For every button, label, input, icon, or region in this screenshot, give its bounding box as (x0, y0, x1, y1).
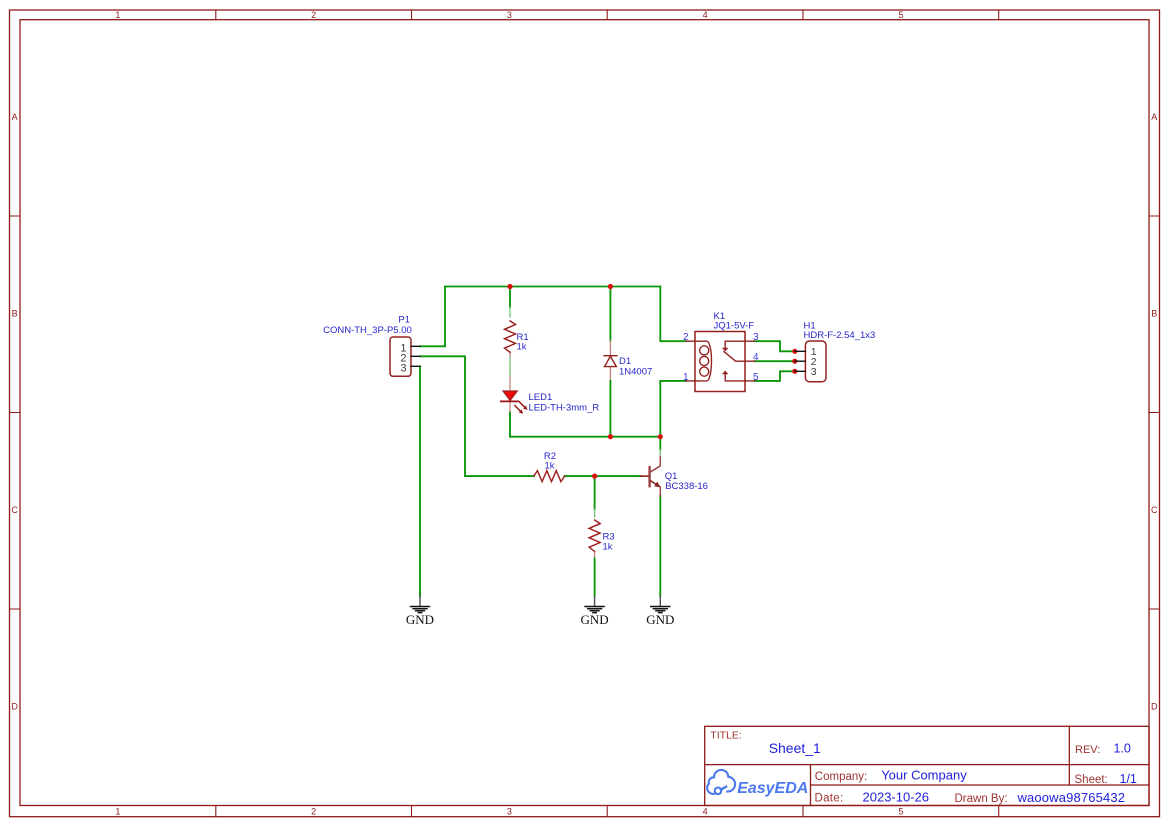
svg-text:A: A (1151, 112, 1157, 122)
junction dot R2 R3 (592, 474, 597, 479)
wire top rail (445, 286, 660, 288)
svg-text:1k: 1k (603, 542, 613, 553)
svg-text:1.0: 1.0 (1114, 742, 1131, 756)
svg-text:3: 3 (400, 363, 406, 375)
svg-text:1: 1 (115, 10, 120, 20)
svg-text:1k: 1k (544, 461, 554, 472)
svg-text:3: 3 (507, 10, 512, 20)
svg-text:Your Company: Your Company (881, 768, 967, 783)
transistor Q1 (641, 457, 661, 496)
svg-text:Sheet:: Sheet: (1075, 774, 1108, 786)
svg-text:5: 5 (753, 372, 759, 383)
svg-text:TITLE:: TITLE: (710, 730, 742, 742)
resistor R1 (505, 321, 516, 352)
svg-text:A: A (12, 112, 18, 122)
svg-text:Drawn By:: Drawn By: (955, 793, 1008, 805)
svg-text:EasyEDA: EasyEDA (737, 780, 808, 797)
frame row letters left (11, 112, 18, 712)
ground GND1 (406, 596, 434, 627)
svg-text:BC338-16: BC338-16 (665, 481, 708, 492)
resistor R2 (534, 471, 565, 482)
wire P1 pin3 to GND (419, 366, 421, 596)
svg-text:C: C (1151, 505, 1158, 515)
svg-text:2023-10-26: 2023-10-26 (863, 790, 930, 805)
svg-text:2: 2 (311, 10, 316, 20)
wire R2 to Q1 base (565, 475, 641, 477)
svg-text:HDR-F-2.54_1x3: HDR-F-2.54_1x3 (804, 330, 876, 341)
svg-text:waoowa98765432: waoowa98765432 (1017, 790, 1126, 805)
svg-text:4: 4 (753, 352, 759, 363)
wire relay pin1 to bottom rail (660, 381, 686, 437)
relay coil pins (686, 341, 695, 381)
junction dot H1 pin1 (792, 349, 797, 354)
junction dot top rail D1 (608, 284, 613, 289)
svg-text:P1: P1 (398, 315, 410, 326)
relay coil (695, 341, 712, 381)
svg-text:D: D (1151, 702, 1158, 712)
wire D1 bottom lead (609, 367, 611, 381)
junction dot top rail R1 (507, 284, 512, 289)
svg-text:Date:: Date: (815, 793, 844, 805)
diode D1 (604, 356, 617, 367)
svg-text:3: 3 (507, 807, 512, 817)
wire LED1 to bottom rail (509, 402, 511, 413)
wire Q1 collector (659, 437, 661, 450)
title block outline (705, 726, 1149, 805)
H1 pin stubs 1 2 3 (795, 351, 806, 371)
wire relay pin3 to H1 pin1 (755, 341, 795, 351)
wire relay pin4 to H1 pin2 (755, 360, 795, 362)
svg-text:3: 3 (811, 366, 817, 378)
frame column numbers bottom (115, 807, 903, 817)
P1 pin numbers 1 2 3 (400, 343, 406, 375)
svg-text:1N4007: 1N4007 (619, 367, 652, 378)
svg-text:4: 4 (703, 10, 708, 20)
wire R2 junction to R3 (594, 476, 596, 509)
svg-text:GND: GND (581, 612, 609, 627)
relay pin numbers (683, 332, 759, 383)
svg-text:2: 2 (311, 807, 316, 817)
relay switch contacts (724, 341, 755, 381)
wire D1 top lead (609, 287, 611, 341)
ground GND3 (646, 596, 674, 627)
wire top rail to relay pin2 (660, 287, 686, 342)
P1 pin stubs 1 2 3 (411, 346, 420, 366)
junction dot H1 pin2 (792, 359, 797, 364)
frame row ticks right (1149, 216, 1160, 609)
svg-text:4: 4 (703, 807, 708, 817)
wire R3 to GND (594, 552, 596, 558)
svg-text:3: 3 (753, 332, 759, 343)
H1 pin numbers 1 2 3 (811, 346, 817, 378)
svg-text:D: D (11, 702, 18, 712)
svg-text:2: 2 (683, 332, 689, 343)
svg-text:GND: GND (646, 612, 674, 627)
svg-text:GND: GND (406, 612, 434, 627)
svg-text:B: B (1151, 309, 1157, 319)
wire bottom rail (510, 436, 660, 438)
svg-text:1: 1 (115, 807, 120, 817)
frame column ticks top (216, 10, 999, 20)
frame row ticks left (10, 216, 21, 609)
svg-text:LED1: LED1 (529, 392, 553, 403)
svg-text:1k: 1k (517, 342, 527, 353)
frame column ticks bottom (216, 806, 999, 817)
resistor R3 (589, 520, 600, 551)
svg-text:Company:: Company: (815, 771, 867, 783)
wire P1 pin2 to R2 (420, 356, 534, 476)
wire relay pin5 to H1 pin3 (755, 371, 795, 381)
wire R1 to LED1 (509, 352, 511, 357)
header H1 (795, 341, 826, 382)
svg-text:CONN-TH_3P-P5.00: CONN-TH_3P-P5.00 (323, 325, 412, 336)
EasyEDA logo cloud (707, 770, 735, 794)
svg-text:C: C (11, 505, 18, 515)
junction dot bottom rail D1 (608, 434, 613, 439)
svg-text:5: 5 (898, 807, 903, 817)
junction dot H1 pin3 (792, 369, 797, 374)
frame row letters right (1151, 112, 1158, 712)
junction dot bottom rail collector (658, 434, 663, 439)
relay K1 (683, 332, 759, 392)
svg-text:1/1: 1/1 (1120, 772, 1137, 786)
svg-text:5: 5 (898, 10, 903, 20)
connector P1 (390, 337, 420, 376)
svg-text:D1: D1 (619, 356, 631, 367)
svg-text:B: B (12, 309, 18, 319)
svg-text:REV:: REV: (1075, 744, 1100, 756)
ground GND2 (581, 596, 609, 627)
svg-text:Sheet_1: Sheet_1 (769, 740, 821, 756)
svg-text:1: 1 (683, 372, 689, 383)
wire Q1 emitter to GND (659, 496, 661, 597)
frame column numbers top (115, 10, 903, 20)
svg-text:JQ1-5V-F: JQ1-5V-F (714, 321, 755, 332)
LED LED1 (501, 391, 528, 414)
relay arrow down (722, 348, 729, 352)
relay arrow up (722, 371, 729, 375)
wire R1 top lead (509, 287, 511, 308)
svg-text:LED-TH-3mm_R: LED-TH-3mm_R (529, 403, 600, 414)
wire P1 pin1 to top rail (420, 287, 445, 347)
